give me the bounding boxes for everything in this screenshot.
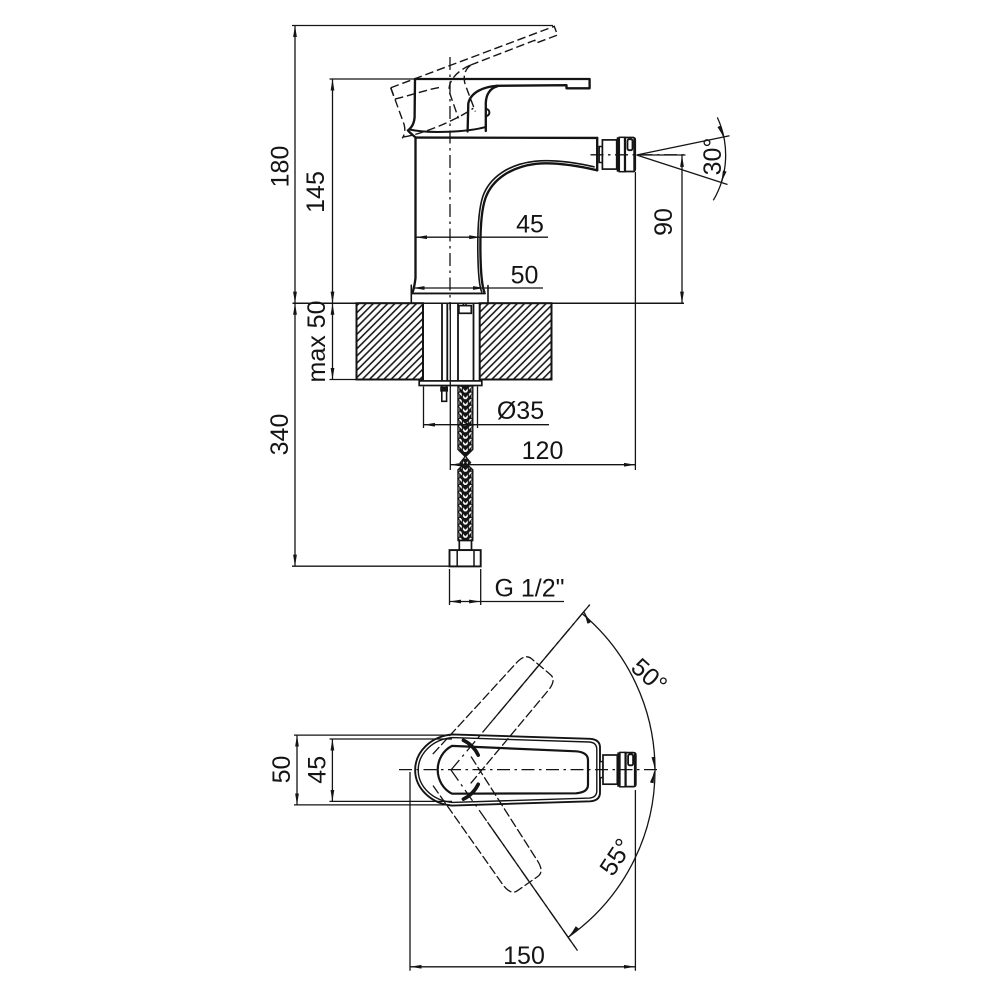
angular dim arc 55 lower [568, 770, 655, 937]
svg-text:120: 120 [522, 437, 564, 465]
UNDER-COUNTER ASSEMBLY [419, 304, 482, 567]
body trunk left edge [413, 138, 416, 292]
top view dim texts [268, 653, 672, 970]
dim 50 tail [485, 287, 543, 289]
raised lever bar [391, 26, 558, 96]
TOP VIEW (bottom) [415, 650, 600, 896]
svg-text:145: 145 [302, 171, 330, 213]
svg-text:45: 45 [303, 756, 331, 784]
handle lever bar [415, 79, 590, 88]
radial line 55 [488, 822, 578, 951]
svg-text:max 50: max 50 [303, 301, 331, 383]
raised neck right [460, 65, 487, 111]
raised lever rear edge [391, 71, 443, 105]
axis of raised handle 55 [451, 770, 576, 948]
spout horizontal axis (dash-dot) [591, 154, 685, 156]
hose break diamond [460, 456, 470, 469]
spout inner curve [478, 161, 594, 292]
dim max50 line [332, 303, 334, 379]
spray fan upper line [637, 136, 730, 155]
counter hatched right block [480, 303, 552, 379]
handle neck right edge [486, 86, 498, 131]
dim texts (side view) [266, 138, 727, 603]
dim 120 extension right [634, 172, 636, 470]
counter top surface line [293, 302, 685, 304]
svg-text:90: 90 [650, 208, 678, 236]
cap bottom arc [410, 127, 486, 132]
FAUCET SIDE VIEW [408, 79, 597, 303]
svg-text:50: 50 [268, 756, 296, 784]
braided hose upper segment [458, 386, 473, 457]
dim 340 extension bottom [292, 565, 450, 567]
dim G12 extensions [449, 569, 451, 605]
dashed handle rotated up 50 [433, 650, 557, 785]
DIMENSIONS (side view) [292, 26, 730, 606]
dim O35 extensions [423, 387, 425, 429]
dim max50 extension bottom [330, 379, 357, 381]
aerator (top view) [600, 752, 636, 786]
dim 50tv extensions [294, 734, 450, 736]
handle pivot dot [486, 109, 490, 116]
faucet vertical axis (dash-dot) [449, 57, 451, 310]
dim 45 tail [481, 236, 548, 238]
dim 150 line [410, 966, 635, 968]
dim 90 extension top [640, 154, 686, 156]
cap left edge and lip [408, 79, 416, 137]
svg-text:45: 45 [516, 211, 544, 239]
hose nipple [463, 304, 466, 306]
handle lever (top view) [438, 746, 588, 794]
braided hose lower segment [458, 463, 473, 541]
arc middle arrows at horizontal [654, 758, 656, 769]
handle neck left edge [468, 86, 497, 132]
dim 120 line [450, 464, 635, 466]
threaded stud [442, 304, 447, 381]
dim 45 line with arrows [416, 236, 481, 238]
svg-text:180: 180 [267, 146, 295, 188]
axis of raised handle 50 [451, 604, 591, 770]
spout outer curve (right edge down to base) [480, 163, 597, 291]
dim 120 extension left (axis) [449, 304, 451, 470]
base flare bottom line [412, 292, 485, 294]
spray fan arc arrows [720, 127, 724, 137]
arc end arrow upper [584, 612, 589, 623]
dim O35 tail [478, 424, 550, 426]
G1/2 nut facets [457, 550, 474, 566]
svg-text:G 1/2": G 1/2" [494, 575, 564, 603]
spray fan arc [713, 117, 725, 200]
dim 50 line with arrows [413, 287, 485, 289]
body top shoulder / spout top [416, 136, 598, 139]
dashed handle rotated down 55 [432, 757, 549, 896]
svg-text:30°: 30° [699, 138, 727, 176]
svg-text:50: 50 [511, 262, 539, 290]
dim 45tv extensions [330, 738, 453, 740]
raised cap left edge [384, 88, 409, 139]
mounting washer plate [419, 381, 482, 386]
counter hatched left block [357, 303, 424, 379]
hose ferrule [459, 541, 471, 551]
dim 145 line [332, 79, 334, 303]
dim 145 extension [330, 78, 417, 80]
raised handle (dashed, rotated) [384, 26, 573, 140]
arc end arrow lower [570, 928, 577, 936]
G1/2 nut [450, 550, 481, 566]
dim 90 line [681, 155, 683, 303]
dim 340 line [294, 303, 296, 566]
dim 180 extension top [292, 25, 553, 27]
cap dome arc lower [463, 784, 478, 799]
raised cap bottom arc [403, 108, 475, 139]
DIMENSIONS (top view) [294, 605, 655, 971]
dim 45tv line [331, 739, 333, 801]
base plinth [411, 285, 488, 302]
dim G12 tail [481, 601, 564, 603]
body outer outline [415, 734, 600, 805]
raised neck left [442, 65, 486, 118]
svg-text:340: 340 [266, 414, 294, 456]
spray fan lower line [637, 155, 728, 185]
dim O35 line [424, 424, 478, 426]
aerator (side view) [599, 137, 635, 171]
top view horizontal axis [399, 769, 659, 771]
dim 50tv line [296, 735, 298, 805]
dim 150 extensions [409, 772, 411, 971]
stud nut below washer [442, 386, 447, 402]
supply hose tube in hole [458, 304, 474, 381]
spout tip face [596, 138, 598, 170]
radial line 50 [490, 605, 590, 724]
svg-text:150: 150 [503, 942, 545, 970]
svg-text:Ø35: Ø35 [497, 397, 544, 425]
body inner offset outline [418, 738, 597, 803]
dim 180 line [294, 26, 296, 304]
cap dome arc upper [463, 740, 478, 755]
dim G12 line [450, 601, 481, 603]
angular dim arc 50 upper [582, 614, 655, 771]
